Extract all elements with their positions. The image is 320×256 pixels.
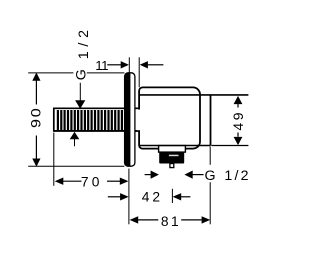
dimension 90 [28,73,124,166]
svg-text:G: G [205,168,216,184]
dimension 81 [138,219,202,221]
svg-text:G: G [73,69,89,80]
pipe thread hatching [58,110,122,130]
label G 1/2 bottom with leader arrows [145,174,151,176]
hose connector collar [159,146,186,153]
svg-text:11: 11 [95,58,108,73]
dimension 42 [108,196,191,198]
up arrow under pipe [74,139,76,146]
svg-text:42: 42 [142,189,163,204]
wall flange (edge view) [125,73,135,166]
leader to pipe thread (down arrow) [79,83,81,101]
dimension 11 [107,57,163,87]
svg-text:70: 70 [81,174,103,189]
dimension 49 [212,104,249,146]
hose connector nut (black) [159,152,184,164]
hose nipple tab [170,164,174,168]
dimension 70 [54,133,120,186]
axis extension line (42) [171,189,173,203]
body block (escutcheon) [139,87,200,148]
svg-text:1/2: 1/2 [224,168,250,184]
svg-text:49: 49 [230,110,246,131]
front-face extension line (81) with gap at G [209,147,211,165]
svg-text:90: 90 [28,106,44,128]
threaded inlet pipe [53,108,139,131]
wall-plane extension line [128,169,130,225]
nut highlight [169,155,179,157]
pipe opening into body (erase block left edge) [137,110,141,131]
svg-text:1/2: 1/2 [76,25,92,59]
flange dark face [125,73,131,166]
svg-text:81: 81 [161,214,181,229]
front cylinder lines [139,95,249,146]
